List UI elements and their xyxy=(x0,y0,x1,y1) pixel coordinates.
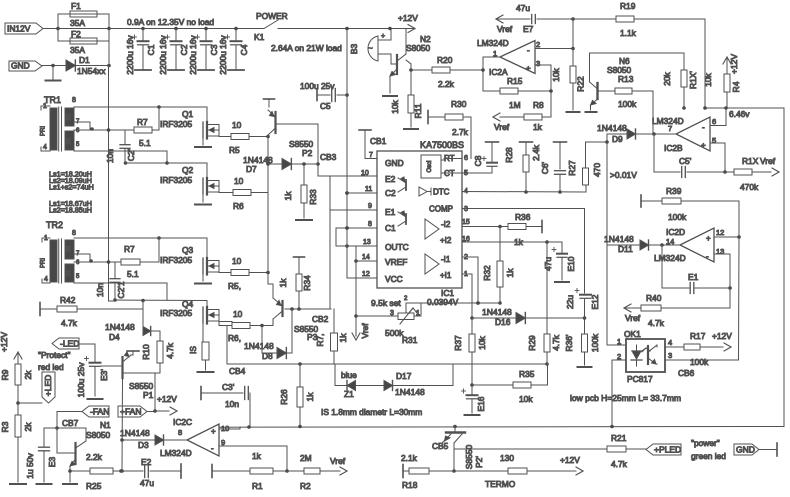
svg-text:R7,: R7, xyxy=(315,333,325,346)
svg-text:Vref: Vref xyxy=(330,456,346,466)
transistor Q3 IRF3205 xyxy=(159,237,207,239)
transistor N1 S8050 xyxy=(56,428,58,453)
wire feedback 20k xyxy=(590,52,684,54)
svg-text:13: 13 xyxy=(716,247,724,256)
wire TR2 pin5 xyxy=(74,282,167,284)
transistor Q1 IRF3205 xyxy=(159,106,207,108)
svg-text:2: 2 xyxy=(536,40,540,49)
resistor R36' 100k xyxy=(584,318,586,334)
svg-text:4: 4 xyxy=(44,276,48,283)
capacitor C6' xyxy=(554,141,567,143)
svg-text:S2: S2 xyxy=(66,246,72,253)
svg-text:R9: R9 xyxy=(0,369,10,380)
capacitor C2'1 xyxy=(114,262,116,278)
svg-text:4: 4 xyxy=(668,338,672,347)
wire CB4 xyxy=(227,363,547,365)
pin3 OK1 xyxy=(665,359,739,361)
wire left bus xyxy=(108,29,110,66)
transistor Q4 IRF3205 xyxy=(206,301,208,309)
svg-text:14: 14 xyxy=(362,254,370,261)
svg-text:2: 2 xyxy=(617,352,621,361)
wire IC2C minus xyxy=(219,445,287,447)
svg-text:S1: S1 xyxy=(66,138,72,145)
osc block xyxy=(421,155,441,178)
connector +FAN xyxy=(118,406,147,417)
svg-text:+12V: +12V xyxy=(157,394,177,404)
op-amp IC2D LM324D xyxy=(680,228,714,262)
svg-text:Vref: Vref xyxy=(360,323,370,339)
svg-text:1k: 1k xyxy=(505,268,515,278)
svg-text:Q1: Q1 xyxy=(182,109,194,119)
svg-text:K1: K1 xyxy=(254,32,265,42)
fuse F2 xyxy=(57,29,59,42)
capacitor C2' xyxy=(124,130,126,144)
svg-text:8: 8 xyxy=(178,428,182,437)
transistor N2 S8050 xyxy=(396,55,398,74)
svg-text:R1: R1 xyxy=(252,481,263,491)
svg-text:8: 8 xyxy=(72,230,76,237)
resistor R6 xyxy=(233,190,251,196)
resistor R1X 470k xyxy=(725,171,734,173)
wire E1/E2 bus xyxy=(329,176,331,309)
svg-text:10n: 10n xyxy=(105,149,115,163)
wire Vref-E7 line xyxy=(496,15,503,19)
svg-text:E10: E10 xyxy=(566,256,576,271)
switch K1 POWER xyxy=(264,20,278,29)
svg-text:PRI: PRI xyxy=(41,258,47,268)
svg-text:+12V: +12V xyxy=(712,331,732,341)
resistor R10 xyxy=(159,331,161,341)
svg-text:2.2k: 2.2k xyxy=(438,79,455,89)
svg-text:+FAN: +FAN xyxy=(120,407,142,417)
svg-text:2200u 16v: 2200u 16v xyxy=(125,35,135,75)
wire IC2A plus xyxy=(535,64,551,66)
svg-text:R26: R26 xyxy=(279,389,289,405)
capacitor C1 xyxy=(142,29,144,41)
wire N2 collector-R20 xyxy=(406,60,411,64)
resistor R2 xyxy=(287,470,304,472)
svg-text:+: + xyxy=(706,234,711,243)
resistor R27 xyxy=(585,185,587,192)
svg-text:R18: R18 xyxy=(402,480,418,490)
resistor R37 xyxy=(471,318,473,334)
resistor 130 TERMO xyxy=(454,470,508,472)
resistor R8 xyxy=(542,116,551,118)
svg-text:1u 50v: 1u 50v xyxy=(25,452,35,478)
svg-text:R15: R15 xyxy=(507,76,523,86)
capacitor E3' 100u xyxy=(90,362,101,364)
svg-text:100u 25v: 100u 25v xyxy=(300,81,335,91)
svg-text:470k: 470k xyxy=(740,182,759,192)
svg-text:IC2B: IC2B xyxy=(664,143,683,153)
svg-text:4.7k: 4.7k xyxy=(61,318,78,328)
transistor P1 S8550 xyxy=(101,365,123,367)
svg-text:6.46v: 6.46v xyxy=(729,109,750,119)
resistor R34 xyxy=(294,256,305,258)
wire CT pin network xyxy=(462,172,492,174)
wire TR2 taps xyxy=(74,253,90,255)
svg-text:CB1: CB1 xyxy=(370,136,387,146)
svg-text:P2: P2 xyxy=(302,148,313,158)
svg-text:2k: 2k xyxy=(23,422,33,432)
svg-text:R19: R19 xyxy=(620,1,636,11)
svg-text:4.7k: 4.7k xyxy=(611,459,628,469)
resistor R35 xyxy=(472,384,513,386)
svg-text:100u 25v: 100u 25v xyxy=(76,362,86,398)
svg-text:VREF: VREF xyxy=(385,257,407,267)
svg-text:N1: N1 xyxy=(100,420,111,430)
svg-text:-: - xyxy=(706,252,709,261)
svg-text:1.1k: 1.1k xyxy=(620,28,637,38)
svg-text:R40: R40 xyxy=(646,293,662,303)
svg-text:R7: R7 xyxy=(124,244,135,254)
svg-text:D1: D1 xyxy=(79,55,90,65)
svg-text:IRF3205: IRF3205 xyxy=(160,308,192,318)
svg-text:TERMO: TERMO xyxy=(485,479,516,489)
pin 12 VCC xyxy=(347,277,377,279)
svg-text:C4: C4 xyxy=(239,44,249,55)
pin 4 DTC xyxy=(419,187,427,196)
svg-text:1k: 1k xyxy=(278,278,288,288)
svg-text:47u: 47u xyxy=(516,3,530,13)
svg-text:OUTC: OUTC xyxy=(385,242,409,252)
wire C1 down to OUTC xyxy=(335,228,337,246)
diode D17 xyxy=(384,381,393,391)
wire TR2 pin8 xyxy=(74,237,159,239)
svg-text:F2: F2 xyxy=(71,29,81,39)
resistor R42 xyxy=(39,303,41,316)
svg-text:10k: 10k xyxy=(519,394,533,404)
resistor R5, lower xyxy=(231,270,249,276)
svg-text:8: 8 xyxy=(72,97,76,104)
svg-text:1N4148: 1N4148 xyxy=(604,234,634,244)
resistor 10k N2 xyxy=(410,70,412,95)
svg-text:D4: D4 xyxy=(109,332,120,342)
svg-text:R36': R36' xyxy=(564,334,574,351)
fuse F1 xyxy=(57,14,59,29)
svg-text:C1: C1 xyxy=(385,223,396,233)
pin 7 GND xyxy=(365,158,377,160)
svg-text:R36: R36 xyxy=(515,212,531,222)
svg-text:S1: S1 xyxy=(66,270,72,277)
svg-text:E1: E1 xyxy=(385,207,396,217)
svg-text:Vref: Vref xyxy=(625,313,641,323)
svg-text:1M: 1M xyxy=(509,100,521,110)
svg-text:D11: D11 xyxy=(618,244,633,254)
svg-text:LM324D: LM324D xyxy=(160,448,192,458)
svg-text:12: 12 xyxy=(362,271,370,278)
svg-text:R4: R4 xyxy=(731,81,741,92)
svg-text:Q3: Q3 xyxy=(182,245,194,255)
svg-text:10n: 10n xyxy=(225,399,239,409)
connector -LED xyxy=(52,338,79,349)
wire +I2 line xyxy=(462,241,562,243)
capacitor C4 xyxy=(235,29,237,41)
svg-text:R20: R20 xyxy=(437,55,453,65)
wire IC2A minus xyxy=(535,48,573,50)
svg-text:"power": "power" xyxy=(691,438,720,448)
svg-text:R31: R31 xyxy=(402,335,418,345)
svg-text:9: 9 xyxy=(368,203,372,210)
svg-text:1k: 1k xyxy=(305,392,315,402)
svg-text:PC817: PC817 xyxy=(627,374,653,384)
svg-text:R22: R22 xyxy=(576,76,586,92)
svg-text:R6: R6 xyxy=(233,201,244,211)
svg-text:R1X': R1X' xyxy=(688,71,698,89)
svg-text:B3: B3 xyxy=(349,44,359,55)
svg-text:CT: CT xyxy=(444,169,455,178)
svg-text:1k: 1k xyxy=(252,451,262,461)
svg-text:-LED: -LED xyxy=(60,339,79,349)
svg-text:10k: 10k xyxy=(390,99,400,113)
resistor R33 xyxy=(303,164,305,185)
svg-text:-: - xyxy=(211,444,214,453)
svg-text:C1: C1 xyxy=(146,44,156,55)
wire +I1 line xyxy=(462,273,472,275)
svg-text:7: 7 xyxy=(369,152,373,159)
svg-text:D8: D8 xyxy=(262,351,273,361)
svg-text:VCC: VCC xyxy=(385,274,403,284)
svg-text:CB4: CB4 xyxy=(229,366,246,376)
capacitor C8 xyxy=(486,141,499,143)
resistor R13 xyxy=(599,90,616,92)
capacitor C3 xyxy=(205,29,207,41)
wire P3 emitter xyxy=(267,273,269,285)
svg-text:15: 15 xyxy=(462,219,470,226)
resistor R18 xyxy=(402,465,404,478)
svg-text:8: 8 xyxy=(368,221,372,228)
svg-text:CB6: CB6 xyxy=(678,368,695,378)
svg-text:R28: R28 xyxy=(504,147,514,163)
svg-text:E1: E1 xyxy=(688,272,699,282)
svg-text:+PLED: +PLED xyxy=(654,445,681,455)
svg-text:IRF3205: IRF3205 xyxy=(160,119,192,129)
wire -I2 line xyxy=(462,226,508,228)
capacitor E2 xyxy=(119,469,123,473)
svg-text:6: 6 xyxy=(712,117,716,126)
diode D11 xyxy=(607,244,640,246)
svg-text:GND: GND xyxy=(385,158,404,168)
resistor R39 xyxy=(640,195,642,207)
wire Q4 gate line xyxy=(109,300,116,302)
wire P2 base xyxy=(276,123,319,125)
svg-text:S8050: S8050 xyxy=(86,430,111,440)
svg-text:R13: R13 xyxy=(618,74,634,84)
resistor R32 xyxy=(499,227,501,262)
svg-text:R3: R3 xyxy=(0,421,10,432)
svg-text:R25: R25 xyxy=(86,481,102,491)
svg-text:C8: C8 xyxy=(473,155,483,166)
wire IC2B minus xyxy=(710,125,726,127)
wire -I1 line xyxy=(462,256,478,258)
wire IC2B feedback xyxy=(653,134,655,172)
svg-text:10k: 10k xyxy=(703,72,713,86)
wire P1 collector xyxy=(122,371,124,378)
pin 14 VREF xyxy=(356,260,377,262)
svg-text:R42: R42 xyxy=(60,295,76,305)
svg-text:C2'1: C2'1 xyxy=(116,281,126,298)
svg-text:IS 1.8mm diametr L=30mm: IS 1.8mm diametr L=30mm xyxy=(321,407,422,417)
svg-text:+12V: +12V xyxy=(729,54,739,74)
resistor R25 xyxy=(68,469,72,473)
svg-text:+: + xyxy=(701,141,706,150)
svg-text:Ls2=18.85uH: Ls2=18.85uH xyxy=(49,206,92,215)
svg-text:2200u 16v: 2200u 16v xyxy=(158,35,168,75)
svg-text:1N4148: 1N4148 xyxy=(597,123,627,133)
svg-text:2200u 16v: 2200u 16v xyxy=(218,35,228,75)
svg-text:4.7k: 4.7k xyxy=(648,318,665,328)
pin2 OK1 xyxy=(612,359,626,361)
capacitor E12 xyxy=(580,294,591,296)
svg-text:22u: 22u xyxy=(565,295,575,309)
wire wiper 0.0394 xyxy=(406,302,500,304)
buzzer B3 xyxy=(368,36,378,61)
svg-text:Z1: Z1 xyxy=(344,389,354,399)
diode D3 xyxy=(122,439,155,441)
svg-text:10k: 10k xyxy=(477,335,487,349)
arrow +12V top xyxy=(408,25,415,29)
svg-text:130: 130 xyxy=(500,453,514,463)
capacitor C3' xyxy=(200,387,202,400)
svg-text:20k: 20k xyxy=(662,71,672,85)
resistor R1 xyxy=(211,465,213,478)
resistor R20 xyxy=(411,69,432,71)
svg-text:-: - xyxy=(702,123,705,132)
svg-text:0.9A on 12.35V no load: 0.9A on 12.35V no load xyxy=(127,17,214,27)
svg-text:GND: GND xyxy=(736,445,755,455)
svg-text:10: 10 xyxy=(233,309,243,319)
wire E1 pin xyxy=(330,209,377,211)
svg-text:DTC: DTC xyxy=(433,188,450,197)
svg-text:D16: D16 xyxy=(495,317,511,327)
svg-text:2.4k: 2.4k xyxy=(531,144,541,161)
connector +LED xyxy=(18,402,42,404)
diode D4 xyxy=(142,309,144,331)
svg-text:R35: R35 xyxy=(519,369,535,379)
svg-text:1N4148: 1N4148 xyxy=(120,428,150,438)
svg-text:3: 3 xyxy=(668,351,672,360)
svg-text:IN12V: IN12V xyxy=(7,24,31,34)
svg-text:5.1: 5.1 xyxy=(127,269,139,279)
svg-text:E2: E2 xyxy=(385,174,396,184)
svg-text:4.7k: 4.7k xyxy=(551,334,561,351)
svg-text:Vref: Vref xyxy=(760,156,776,166)
svg-text:P1: P1 xyxy=(143,390,154,400)
resistor R21 xyxy=(454,448,456,450)
IC U1 KA7500BS box xyxy=(377,151,462,288)
svg-text:E12: E12 xyxy=(590,294,600,309)
transistor CB5 S8550 xyxy=(454,427,456,432)
pin 6 RT xyxy=(444,158,462,160)
resistor R22 10k xyxy=(572,19,574,49)
svg-text:Q2: Q2 xyxy=(182,165,194,175)
wire >0.01V xyxy=(606,134,608,142)
svg-text:R5,: R5, xyxy=(228,281,241,291)
svg-text:C6': C6' xyxy=(540,161,550,174)
resistor R30 xyxy=(445,114,463,120)
svg-text:R6,: R6, xyxy=(228,333,241,343)
wire DTC line xyxy=(462,191,586,194)
wire +FAN branch xyxy=(122,372,155,374)
wire 6.46v line xyxy=(705,107,784,109)
capacitor E3 1u xyxy=(43,428,45,446)
resistor R1X' 20k xyxy=(683,53,685,70)
svg-text:1: 1 xyxy=(617,337,621,346)
wire CB3 to E2 xyxy=(317,164,319,176)
svg-text:R10: R10 xyxy=(141,344,151,360)
svg-text:R11: R11 xyxy=(413,103,423,118)
wire IC2B plus xyxy=(710,142,725,144)
svg-text:IRF3205: IRF3205 xyxy=(160,255,192,265)
svg-text:PRI: PRI xyxy=(41,126,47,136)
svg-text:2200u 16v: 2200u 16v xyxy=(188,35,198,75)
svg-text:GND: GND xyxy=(11,61,30,71)
capacitor E7 xyxy=(531,15,533,24)
svg-text:35A: 35A xyxy=(70,18,85,28)
svg-text:100k: 100k xyxy=(618,99,637,109)
svg-text:4: 4 xyxy=(43,144,47,151)
svg-text:35A: 35A xyxy=(70,45,85,55)
svg-text:-I1: -I1 xyxy=(441,255,451,264)
wire COMP line xyxy=(462,208,585,210)
wire TR1 pin8 xyxy=(74,106,159,108)
wire bottom rail xyxy=(219,426,784,429)
svg-text:6: 6 xyxy=(464,155,468,162)
svg-text:10: 10 xyxy=(232,120,242,130)
svg-text:2.2k: 2.2k xyxy=(86,452,103,462)
resistor R7 xyxy=(134,127,152,133)
resistor R40 xyxy=(624,304,631,308)
svg-text:10n: 10n xyxy=(95,283,105,297)
wire Vref stub xyxy=(355,246,357,336)
wire TR1 pin5 xyxy=(74,150,167,152)
svg-text:OK1: OK1 xyxy=(624,329,641,339)
svg-text:R8: R8 xyxy=(533,100,544,110)
svg-text:green led: green led xyxy=(691,451,726,461)
svg-text:Vref: Vref xyxy=(497,24,513,34)
svg-text:"Protect": "Protect" xyxy=(38,350,71,360)
optocoupler OK1 PC817 xyxy=(626,339,665,372)
svg-text:R29: R29 xyxy=(527,335,537,351)
connector GND bottom xyxy=(734,444,759,455)
capacitor E1 xyxy=(661,245,663,288)
comparator 2 xyxy=(425,219,439,239)
wire CB4 vertical xyxy=(226,326,228,365)
svg-text:R33: R33 xyxy=(308,189,318,205)
wire CB6 vertical xyxy=(738,237,741,360)
node main rail xyxy=(56,27,60,31)
svg-text:5: 5 xyxy=(712,136,716,145)
wire right edge loop xyxy=(783,108,785,427)
pin 11 C2 xyxy=(347,192,377,194)
svg-text:1N54xx: 1N54xx xyxy=(77,66,106,76)
svg-text:R30: R30 xyxy=(451,99,467,109)
svg-text:11: 11 xyxy=(365,186,372,193)
svg-text:+12V: +12V xyxy=(398,13,418,23)
svg-text:0.0394V: 0.0394V xyxy=(427,297,459,307)
svg-text:+: + xyxy=(526,64,531,73)
svg-text:2.7k: 2.7k xyxy=(452,127,469,137)
capacitor E10 xyxy=(561,242,563,253)
svg-text:RT: RT xyxy=(444,154,455,163)
svg-text:1N4148: 1N4148 xyxy=(105,322,135,332)
capacitor C5 xyxy=(316,90,318,101)
diode D8 xyxy=(261,326,263,354)
wire VCC strap xyxy=(346,246,348,278)
svg-text:+LED: +LED xyxy=(43,375,53,397)
resistor R29 xyxy=(546,242,548,334)
wire C1-C2 strap xyxy=(346,193,348,228)
